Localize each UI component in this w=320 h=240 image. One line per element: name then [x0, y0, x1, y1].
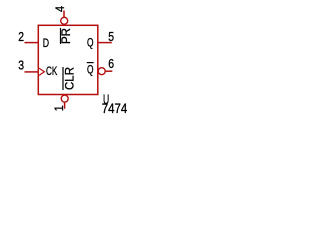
svg-text:3: 3: [18, 58, 24, 73]
svg-text:2: 2: [18, 29, 24, 44]
svg-text:4: 4: [53, 6, 67, 12]
svg-text:CLR: CLR: [63, 67, 77, 90]
svg-text:7474: 7474: [102, 101, 128, 116]
svg-text:Q: Q: [87, 35, 94, 49]
svg-text:5: 5: [108, 29, 114, 44]
svg-text:1: 1: [52, 105, 66, 111]
svg-text:CK: CK: [46, 64, 58, 78]
svg-text:6: 6: [108, 56, 114, 71]
svg-text:Q: Q: [87, 62, 94, 76]
svg-text:D: D: [43, 36, 49, 50]
